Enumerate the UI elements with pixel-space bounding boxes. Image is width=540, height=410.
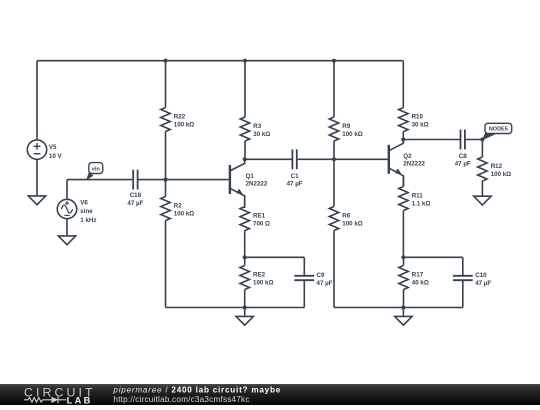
svg-text:10 V: 10 V <box>49 153 63 160</box>
svg-text:100 kΩ: 100 kΩ <box>253 279 273 286</box>
svg-text:RE2: RE2 <box>253 272 266 279</box>
wire Q1 collector to C1 <box>245 158 292 160</box>
svg-text:vin: vin <box>92 166 101 172</box>
svg-text:C10: C10 <box>475 272 487 279</box>
svg-text:C8: C8 <box>459 153 467 160</box>
svg-text:R3: R3 <box>253 123 261 130</box>
svg-text:V5: V5 <box>49 144 57 151</box>
svg-text:pipermaree / 2400 lab circuit?: pipermaree / 2400 lab circuit? maybe <box>112 385 281 394</box>
resistor R3 <box>240 61 270 160</box>
svg-text:47 µF: 47 µF <box>127 200 143 207</box>
wire V6 to ground <box>66 219 68 236</box>
capacitor C8 <box>455 130 471 168</box>
ground below R17 <box>395 316 412 325</box>
wire V6 to input net <box>66 180 68 200</box>
svg-text:R9: R9 <box>342 123 350 130</box>
resistor R9 <box>329 61 362 160</box>
svg-text:1.1 kΩ: 1.1 kΩ <box>412 200 431 207</box>
svg-text:30 kΩ: 30 kΩ <box>412 121 429 128</box>
svg-text:LAB: LAB <box>67 396 93 405</box>
svg-text:RE1: RE1 <box>253 213 266 220</box>
svg-text:100 kΩ: 100 kΩ <box>342 220 362 227</box>
svg-text:30 kΩ: 30 kΩ <box>253 131 270 138</box>
capacitor C10 <box>453 272 491 287</box>
voltage source V6 <box>57 199 96 224</box>
CircuitLab logo wordmark CIRCUIT <box>24 385 96 399</box>
footer url text <box>113 395 249 404</box>
ground below V5 <box>28 196 45 205</box>
footer title text <box>112 385 281 394</box>
capacitor C18 <box>127 170 143 207</box>
svg-text:47 µF: 47 µF <box>475 280 491 287</box>
svg-text:47 µF: 47 µF <box>317 280 333 287</box>
svg-text:47 µF: 47 µF <box>287 181 303 188</box>
CircuitLab logo resistor-diode squiggle <box>24 397 66 403</box>
svg-text:sine: sine <box>80 208 93 215</box>
wire input net left of C18 <box>67 179 132 181</box>
capacitor C9 <box>294 272 332 287</box>
ground below V6 <box>58 236 75 245</box>
wire V5 to ground <box>36 159 38 196</box>
transistor Q2 <box>389 140 426 187</box>
resistor R10 <box>399 61 429 140</box>
wire R17 ground stem <box>402 308 404 317</box>
svg-text:R10: R10 <box>412 114 424 121</box>
svg-text:100 kΩ: 100 kΩ <box>342 131 362 138</box>
capacitor C1 <box>287 149 303 187</box>
svg-text:C9: C9 <box>317 272 325 279</box>
ground below R12 <box>474 196 491 205</box>
resistor R12 <box>478 140 511 182</box>
resistor RE1 <box>240 196 270 257</box>
svg-text:R22: R22 <box>174 114 186 121</box>
wire C9 lower lead <box>303 280 305 307</box>
svg-text:C1: C1 <box>291 173 299 180</box>
ground below RE2 <box>236 316 253 325</box>
svg-text:Q1: Q1 <box>246 173 255 180</box>
resistor R2 <box>161 180 194 308</box>
wire C9 upper lead <box>303 257 305 276</box>
node flag vin <box>86 163 103 181</box>
svg-text:700 Ω: 700 Ω <box>253 220 270 227</box>
footer bar <box>0 384 540 405</box>
svg-text:100 kΩ: 100 kΩ <box>174 210 194 217</box>
svg-text:100 kΩ: 100 kΩ <box>174 121 194 128</box>
svg-text:47 µF: 47 µF <box>455 161 471 168</box>
resistor R11 <box>399 176 431 257</box>
resistor RE2 <box>240 257 273 307</box>
wire R11 R17 junction to C10 <box>403 256 462 258</box>
wire C8 to NODE5 junction <box>466 139 483 141</box>
resistor R6 <box>329 159 362 307</box>
transistor Q1 <box>230 159 268 208</box>
svg-text:R6: R6 <box>342 213 350 220</box>
wire RE1 RE2 junction to C9 <box>245 256 305 258</box>
svg-text:NODE5: NODE5 <box>489 127 508 133</box>
wire C10 lower lead <box>462 280 464 307</box>
svg-text:http://circuitlab.com/c3a3cmfs: http://circuitlab.com/c3a3cmfss47kc <box>113 395 249 404</box>
wire R12 to ground <box>481 181 483 196</box>
svg-text:R12: R12 <box>491 163 503 170</box>
svg-text:2N2222: 2N2222 <box>403 160 425 167</box>
svg-text:R11: R11 <box>412 193 424 200</box>
CircuitLab logo wordmark LAB <box>67 396 93 406</box>
wire V5 to rail <box>36 61 38 140</box>
wire right bottom rail <box>334 307 463 309</box>
wire input net C18 to Q1 base <box>139 179 229 181</box>
svg-text:C18: C18 <box>130 192 142 199</box>
svg-text:V6: V6 <box>80 199 88 206</box>
wire R10 junction to C8 <box>403 139 459 141</box>
resistor R22 <box>161 61 194 180</box>
svg-text:2N2222: 2N2222 <box>246 180 268 187</box>
node flag NODE5 <box>482 123 512 140</box>
wire C1 to Q2 base <box>298 158 388 160</box>
svg-text:1 kHz: 1 kHz <box>80 217 96 224</box>
resistor R17 <box>399 257 429 307</box>
wire RE2 ground stem <box>244 308 246 317</box>
wire top power rail <box>37 60 403 62</box>
wire C10 upper lead <box>462 257 464 276</box>
svg-text:Q2: Q2 <box>403 153 412 160</box>
svg-text:40 kΩ: 40 kΩ <box>412 279 429 286</box>
wire left bottom rail <box>166 307 305 309</box>
voltage source V5 <box>27 140 62 160</box>
svg-text:100 kΩ: 100 kΩ <box>491 171 511 178</box>
svg-text:R2: R2 <box>174 203 182 210</box>
svg-text:R17: R17 <box>412 272 424 279</box>
